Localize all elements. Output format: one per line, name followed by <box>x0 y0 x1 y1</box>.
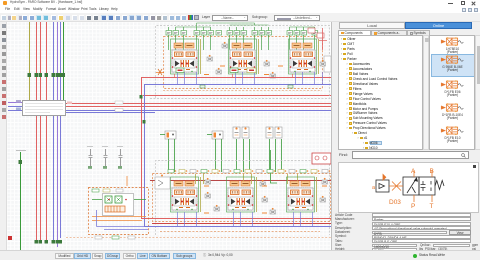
gray dashed outer region bottom <box>156 161 330 236</box>
svg-text:A: A <box>411 168 416 175</box>
orange tick labels top group <box>204 74 209 76</box>
Local button <box>339 22 405 29</box>
orange symbol left of top group <box>156 72 164 74</box>
svg-text:P: P <box>411 203 415 210</box>
red gauge box right <box>312 153 331 164</box>
top group boundary <box>164 37 323 89</box>
svg-text:B: B <box>430 168 434 175</box>
title bar <box>0 0 480 7</box>
Online button <box>405 22 472 29</box>
risers x141 x144 <box>141 78 143 218</box>
dark red bus <box>150 180 331 182</box>
green label boxes row <box>166 31 172 36</box>
inter-valve symbols top <box>207 55 213 61</box>
green riser mid <box>271 150 278 183</box>
top group green wiring <box>169 27 315 50</box>
pump station box <box>103 194 134 216</box>
wire bundle left verticals <box>29 22 31 100</box>
list scrollbar <box>475 35 480 150</box>
tree scrollbar <box>423 35 429 150</box>
svg-text:T: T <box>430 203 434 210</box>
valve assembly bottom 1 <box>171 177 201 212</box>
properties table <box>335 214 352 218</box>
green drops to bottom group <box>169 139 282 172</box>
valve assembly top 2 <box>229 39 259 74</box>
olive drops <box>196 174 298 184</box>
bottom-left pump block <box>89 188 149 235</box>
green supply line left <box>20 152 22 250</box>
valve assembly bottom 3 <box>287 177 317 212</box>
red cluster right top <box>308 28 315 33</box>
status bar <box>0 250 480 260</box>
pump labels row <box>92 189 99 192</box>
preview box <box>338 162 479 213</box>
bottom label row <box>168 170 174 173</box>
orange tick labels bottom group <box>204 185 209 187</box>
top group lower buses <box>141 77 331 79</box>
bundle node labels <box>28 73 32 77</box>
line labels right of box <box>67 102 72 105</box>
menu bar <box>0 7 480 13</box>
preview valve symbol <box>376 177 444 195</box>
left stubs <box>8 102 22 104</box>
pump wiring <box>92 199 146 201</box>
right panel <box>331 22 480 250</box>
red mark bottom far left <box>8 236 12 240</box>
valve assembly top 3 <box>289 39 319 74</box>
gray dashed outer region top <box>156 26 330 99</box>
orange dash bottom of top group <box>163 90 322 92</box>
toolbar <box>0 13 480 22</box>
find row <box>339 152 348 157</box>
bottom buses <box>141 218 331 220</box>
pump bottom labels <box>95 236 102 239</box>
mid cylinders row <box>160 131 176 139</box>
small box left of bottom valve1 <box>155 177 170 189</box>
inter-valve symbols bottom <box>205 192 211 198</box>
bottom group boundary <box>153 174 331 222</box>
sub tabs <box>338 30 371 36</box>
main horizontal buses <box>66 103 331 105</box>
component list <box>429 35 475 150</box>
svg-text:a: a <box>372 185 376 191</box>
partial component right edge top <box>324 56 331 72</box>
valve assembly top 1 <box>171 39 201 74</box>
svg-text:D03: D03 <box>389 199 401 206</box>
connector breaks <box>87 147 93 169</box>
tree view <box>338 35 423 150</box>
canvas <box>7 22 331 250</box>
valve assembly bottom 2 <box>227 177 257 212</box>
left tool strip <box>0 22 7 250</box>
power unit box <box>23 101 66 116</box>
colored label frames below valves <box>176 68 256 73</box>
